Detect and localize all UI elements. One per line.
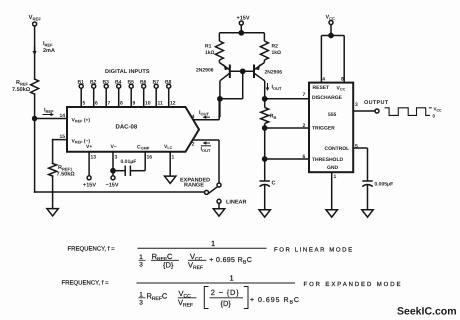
svg-text:SeekIC.com: SeekIC.com (397, 306, 457, 318)
svg-text:12: 12 (170, 101, 176, 107)
svg-text:VREF: VREF (29, 14, 42, 22)
svg-text:DISCHARGE: DISCHARGE (312, 95, 343, 101)
svg-text:6: 6 (303, 154, 306, 160)
svg-text:IOUT: IOUT (199, 110, 210, 116)
svg-text:FOR EXPANDED MODE: FOR EXPANDED MODE (304, 281, 403, 288)
svg-text:FREQUENCY, f =: FREQUENCY, f = (68, 246, 116, 253)
svg-text:LINEAR: LINEAR (226, 200, 247, 206)
svg-text:+ 0.695 RBC: + 0.695 RBC (209, 257, 252, 266)
svg-text:3: 3 (139, 300, 143, 307)
svg-text:+15V: +15V (83, 183, 96, 189)
svg-text:+15V: +15V (237, 16, 250, 22)
svg-text:TRIGGER: TRIGGER (312, 126, 335, 132)
svg-text:0.01μF: 0.01μF (121, 159, 137, 165)
svg-text:5: 5 (355, 144, 358, 150)
svg-text:1: 1 (334, 174, 337, 180)
svg-text:CONTROL: CONTROL (325, 146, 350, 152)
svg-text:IREF: IREF (44, 108, 54, 114)
svg-text:IOUT: IOUT (272, 85, 283, 91)
svg-text:OUTPUT: OUTPUT (364, 100, 389, 106)
svg-text:7: 7 (108, 101, 111, 107)
svg-text:5: 5 (83, 101, 86, 107)
svg-text:+ 0.695 RBC: + 0.695 RBC (250, 297, 300, 306)
svg-text:GND: GND (327, 165, 339, 171)
svg-text:7.50kΩ: 7.50kΩ (12, 87, 31, 93)
svg-text:16: 16 (147, 155, 153, 161)
svg-text:{D}: {D} (163, 261, 174, 270)
svg-text:VREF (+): VREF (+) (72, 118, 91, 124)
svg-text:3: 3 (115, 155, 118, 161)
svg-text:B2: B2 (90, 80, 97, 86)
svg-text:8: 8 (120, 101, 123, 107)
svg-text:2mA: 2mA (43, 48, 55, 54)
svg-text:1: 1 (172, 155, 175, 161)
svg-text:RREFC: RREFC (147, 292, 168, 303)
svg-text:VCC: VCC (337, 86, 346, 92)
svg-text:1kΩ: 1kΩ (272, 50, 282, 56)
svg-text:8: 8 (341, 77, 344, 83)
svg-text:1kΩ: 1kΩ (205, 50, 215, 56)
svg-text:V−: V− (111, 144, 117, 150)
svg-text:{D}: {D} (221, 299, 232, 308)
svg-text:14: 14 (60, 113, 66, 119)
svg-text:2: 2 (192, 142, 195, 148)
svg-text:B1: B1 (78, 80, 85, 86)
svg-text:0: 0 (433, 114, 436, 119)
svg-text:2 − {D}: 2 − {D} (211, 288, 240, 297)
svg-text:RB: RB (270, 114, 277, 120)
svg-text:RREF1: RREF1 (58, 165, 73, 171)
svg-text:RANGE: RANGE (184, 182, 204, 188)
svg-text:R1: R1 (205, 44, 212, 50)
svg-text:0.005μF: 0.005μF (375, 182, 394, 188)
svg-text:VCC: VCC (434, 107, 443, 113)
svg-text:B5: B5 (128, 80, 135, 86)
svg-text:11: 11 (158, 101, 164, 107)
svg-text:DAC-08: DAC-08 (116, 124, 138, 131)
svg-text:B3: B3 (103, 80, 110, 86)
svg-text:VCC: VCC (326, 15, 336, 21)
svg-text:THRESHOLD: THRESHOLD (312, 157, 344, 163)
svg-text:FOR LINEAR MODE: FOR LINEAR MODE (274, 247, 354, 254)
svg-text:10: 10 (145, 101, 151, 107)
svg-text:1: 1 (211, 239, 215, 248)
svg-text:2: 2 (303, 123, 306, 129)
svg-text:3: 3 (355, 102, 358, 108)
svg-text:15: 15 (60, 134, 66, 140)
svg-text:555: 555 (328, 112, 337, 118)
svg-text:B7: B7 (153, 80, 160, 86)
svg-text:3: 3 (139, 262, 143, 269)
svg-text:2N2906: 2N2906 (265, 70, 283, 76)
svg-text:2N2906: 2N2906 (196, 68, 214, 74)
svg-text:R2: R2 (272, 44, 279, 50)
svg-text:6: 6 (95, 101, 98, 107)
svg-text:B6: B6 (140, 80, 147, 86)
svg-text:−15V: −15V (106, 183, 119, 189)
svg-text:9: 9 (133, 101, 136, 107)
svg-text:1: 1 (230, 274, 234, 283)
svg-text:IOUT: IOUT (201, 147, 212, 153)
svg-text:VLC: VLC (164, 144, 173, 150)
svg-text:V+: V+ (86, 144, 92, 150)
svg-text:COMP: COMP (137, 145, 150, 151)
svg-text:B8: B8 (165, 80, 172, 86)
svg-text:7.50kΩ: 7.50kΩ (57, 172, 76, 178)
svg-text:4: 4 (322, 77, 325, 83)
svg-text:RREF: RREF (16, 80, 29, 86)
svg-text:IREF: IREF (43, 41, 53, 47)
svg-text:B4: B4 (115, 80, 122, 86)
svg-text:4: 4 (192, 114, 195, 120)
svg-text:13: 13 (91, 155, 97, 161)
svg-text:7: 7 (303, 92, 306, 98)
svg-text:FREQUENCY, f =: FREQUENCY, f = (62, 280, 110, 287)
svg-text:DIGITAL INPUTS: DIGITAL INPUTS (105, 69, 150, 75)
svg-text:RESET: RESET (313, 85, 330, 91)
svg-text:C: C (272, 181, 276, 187)
